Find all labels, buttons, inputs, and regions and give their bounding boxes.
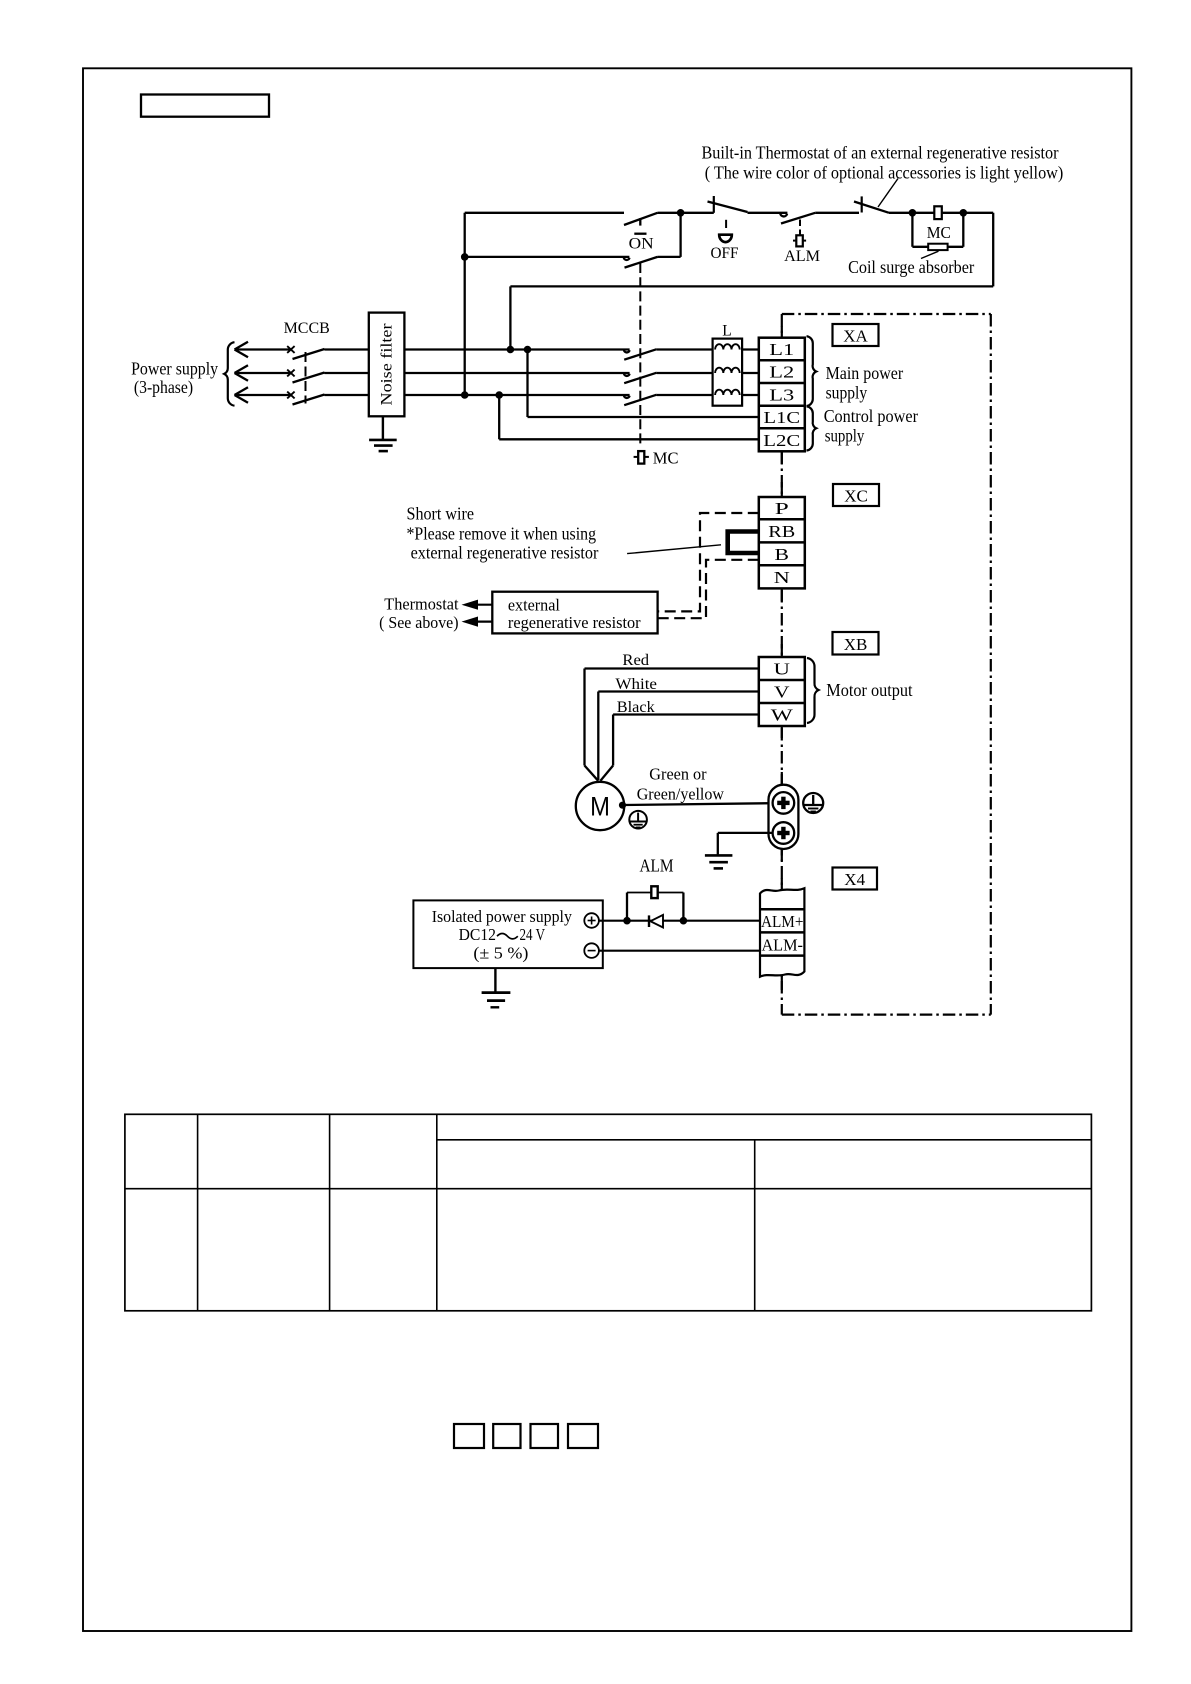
- svg-text:DC12: DC12: [459, 925, 496, 944]
- wire U (Red): [585, 652, 759, 781]
- contact MC phase 1: [624, 349, 713, 360]
- ground PE symbol at motor: [629, 811, 647, 829]
- coil surge absorber branch: [848, 213, 974, 277]
- svg-text:RB: RB: [768, 522, 795, 541]
- svg-text:L1: L1: [769, 340, 794, 359]
- filter Noise filter: [369, 313, 405, 417]
- svg-text:XB: XB: [844, 635, 868, 654]
- svg-text:L3: L3: [769, 385, 794, 404]
- node junction motor PE: [619, 802, 626, 809]
- svg-text:MC: MC: [653, 448, 679, 467]
- svg-text:M: M: [590, 792, 610, 822]
- wire V (White): [598, 676, 759, 780]
- svg-text:( See above): ( See above): [379, 613, 458, 632]
- node junction phase1 x527: [524, 346, 532, 354]
- arrow phase 3: [235, 387, 291, 402]
- node junction ON output: [677, 209, 685, 217]
- wire L to terminals: [742, 348, 759, 350]
- wire phase 1 to MC contact: [404, 348, 629, 350]
- svg-text:P: P: [775, 499, 789, 518]
- arrow phase 1: [235, 342, 291, 357]
- ground symbol below screw wire: [705, 855, 733, 868]
- terminal plus: [584, 913, 599, 928]
- svg-text:XA: XA: [843, 327, 868, 346]
- node junction phase3 x464: [461, 391, 469, 399]
- svg-text:OFF: OFF: [711, 245, 739, 262]
- ground PE symbol right of screw terminal: [803, 793, 823, 813]
- mechanical linkage ON to MC coil (dashed): [639, 263, 641, 447]
- svg-text:ALM: ALM: [784, 248, 820, 265]
- driver outline dash-dot frame: [782, 314, 991, 1015]
- connector XB terminal block U V W: [759, 657, 805, 726]
- node junction phase3 x499: [495, 391, 503, 399]
- svg-text:X4: X4: [844, 870, 865, 889]
- svg-text:ALM-: ALM-: [761, 935, 803, 954]
- svg-text:Noise filter: Noise filter: [379, 323, 396, 406]
- MAIN_DIAGRAM: [461, 143, 1063, 447]
- svg-text:Power supply: Power supply: [131, 358, 218, 378]
- svg-text:V: V: [774, 683, 790, 702]
- svg-text:U: U: [774, 660, 791, 679]
- svg-text:ALM: ALM: [639, 856, 673, 876]
- node junction phase1 x510: [507, 346, 515, 354]
- contact MC phase 3: [624, 395, 713, 406]
- ground isolated supply: [482, 968, 511, 1007]
- arrow see-above lead: [462, 617, 493, 627]
- wire ALM-: [599, 950, 760, 952]
- title label box (empty): [141, 95, 269, 117]
- CONNECTOR_SECTION: [379, 314, 991, 1015]
- connector leads solid on centerline: [781, 326, 783, 990]
- svg-text:external: external: [508, 595, 560, 614]
- svg-text:L2C: L2C: [763, 431, 800, 450]
- connector X4 block with torn edges: [760, 888, 804, 976]
- svg-text:W: W: [771, 706, 794, 725]
- wire earth to lower screw: [718, 833, 773, 856]
- TABLE_SECTION: [125, 1114, 1092, 1311]
- svg-text:Black: Black: [617, 699, 655, 716]
- motor M: [576, 782, 624, 830]
- diode (reverse protection): [649, 915, 663, 928]
- label box XC: [833, 484, 879, 506]
- pointer line to short wire: [627, 545, 721, 554]
- brace power supply: [224, 342, 234, 406]
- relay contact ALM branch: [627, 856, 683, 921]
- switch thermostat contact: [854, 179, 898, 213]
- svg-text:L1C: L1C: [764, 408, 801, 427]
- svg-text:Isolated power supply: Isolated power supply: [432, 907, 573, 926]
- svg-text:Green or: Green or: [649, 765, 707, 784]
- brace motor output: [807, 658, 819, 723]
- arrow thermostat lead: [462, 600, 493, 610]
- svg-text:(3-phase): (3-phase): [134, 377, 193, 398]
- svg-text:Short wire: Short wire: [407, 504, 475, 524]
- svg-text:(± 5 %): (± 5 %): [473, 944, 528, 963]
- note Short wire caption: [407, 504, 599, 563]
- svg-text:MCCB: MCCB: [284, 320, 330, 337]
- node junction ON pole2 tap: [461, 253, 469, 261]
- four small squares: [454, 1424, 598, 1448]
- wire to MC coil: [889, 212, 993, 214]
- node junction coil right: [960, 209, 968, 217]
- wire dashed external resistor upper lead: [658, 513, 759, 611]
- svg-text:XC: XC: [844, 487, 868, 506]
- svg-text:*Please remove it when using: *Please remove it when using: [407, 523, 597, 543]
- svg-text:White: White: [615, 676, 657, 693]
- wire ALM+: [599, 920, 760, 922]
- ALARM_SECTION: [413, 856, 877, 1008]
- label box XB: [833, 632, 879, 655]
- label box XA: [833, 324, 879, 346]
- svg-text:Coil surge absorber: Coil surge absorber: [848, 257, 974, 277]
- inductor L (3-phase reactor): [713, 323, 743, 406]
- svg-text:regenerative resistor: regenerative resistor: [508, 613, 641, 632]
- wire control return horizontal: [510, 285, 993, 287]
- node junction alarm right: [680, 917, 688, 925]
- svg-text:24 V: 24 V: [520, 925, 546, 944]
- relay contact ALM (NO): [780, 213, 859, 265]
- solenoid MC: [634, 448, 679, 467]
- ground noise filter: [369, 416, 397, 451]
- svg-text:Motor output: Motor output: [826, 680, 912, 700]
- svg-text:Red: Red: [622, 652, 649, 669]
- table (empty): [125, 1114, 1092, 1311]
- svg-text:Thermostat: Thermostat: [384, 594, 459, 613]
- screw terminal stadium: [769, 785, 799, 849]
- power source Isolated power supply box: [413, 900, 602, 968]
- svg-text:supply: supply: [825, 426, 865, 446]
- connector XA terminal block L1 L2 L3 L1C L2C: [759, 338, 805, 452]
- wire green PE to screw terminal: [623, 803, 773, 805]
- wire phase 3 to MC contact: [404, 394, 629, 396]
- switch ON pole 2: [465, 213, 681, 268]
- label box X4: [833, 868, 878, 890]
- wire L1C feed: [528, 350, 759, 418]
- svg-text:MC: MC: [927, 223, 951, 242]
- resistor external regenerative resistor box: [492, 592, 657, 634]
- svg-text:supply: supply: [826, 383, 868, 403]
- wire left vertical to phase 3: [464, 213, 466, 395]
- brace control power: [807, 406, 817, 450]
- wire L2C feed: [499, 395, 759, 439]
- short wire (thick jumper RB-B): [728, 532, 759, 554]
- svg-text:L2: L2: [769, 363, 794, 382]
- svg-text:L: L: [722, 323, 731, 340]
- wire phase 2 to MC contact: [404, 372, 629, 374]
- svg-text:Main power: Main power: [826, 363, 904, 383]
- svg-text:Built-in Thermostat of an exte: Built-in Thermostat of an external regen…: [702, 143, 1059, 163]
- terminal minus: [584, 943, 599, 958]
- brace main power: [807, 336, 817, 406]
- contact MC phase 2: [624, 373, 713, 384]
- POWER_SECTION: [131, 313, 759, 468]
- arrow phase 2: [235, 365, 291, 380]
- wire dashed external resistor lower lead: [658, 560, 759, 618]
- svg-text:N: N: [774, 568, 790, 587]
- svg-text:ALM+: ALM+: [761, 912, 804, 931]
- wire top rail left segment: [465, 212, 624, 214]
- svg-text:( The wire color of optional a: ( The wire color of optional accessories…: [705, 163, 1064, 184]
- note: Built-in Thermostat caption: [702, 143, 1064, 184]
- XB_SECTION: [576, 632, 913, 868]
- svg-text:Green/yellow: Green/yellow: [637, 784, 725, 803]
- wire control return right vertical: [992, 213, 994, 287]
- connector XC terminal block P RB B N: [759, 497, 805, 588]
- wire W (Black): [600, 699, 758, 781]
- switch ON pole 1: [624, 213, 714, 253]
- node junction coil left: [909, 209, 917, 217]
- switch OFF (NC pushbutton): [708, 196, 788, 262]
- coil MC: [927, 206, 951, 242]
- wire control return drop to phase 1: [509, 286, 511, 349]
- svg-text:external regenerative resistor: external regenerative resistor: [411, 543, 599, 563]
- node junction alarm left: [623, 917, 631, 925]
- svg-text:Control power: Control power: [824, 406, 918, 426]
- svg-text:B: B: [775, 545, 790, 564]
- svg-text:ON: ON: [629, 236, 654, 253]
- mechanical linkage MCCB (dashed): [305, 352, 307, 404]
